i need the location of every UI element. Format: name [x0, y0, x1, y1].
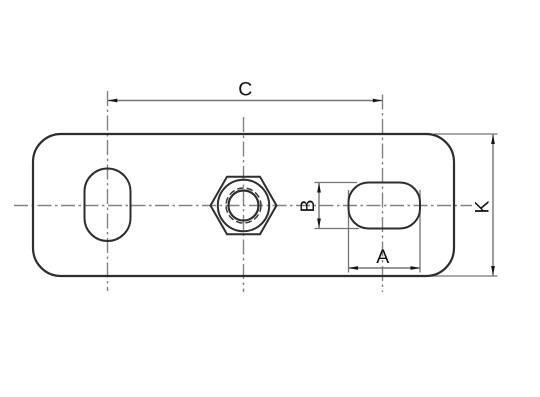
left slot [85, 169, 131, 242]
dimension K extension line top [434, 133, 498, 135]
dimension A line [349, 267, 420, 269]
right slot [349, 183, 421, 229]
right slot vertical centerline [382, 95, 384, 293]
dimension B extension line top [315, 182, 358, 184]
dimension B top arrow [317, 183, 321, 193]
dimension B bottom arrow [317, 219, 321, 229]
dimension A extension line right [419, 190, 421, 273]
dimension A right arrow [411, 266, 421, 270]
dimension C line [108, 100, 383, 102]
svg-text:K: K [472, 200, 494, 213]
dimension K bottom arrow [491, 266, 495, 276]
nut thread dashed circle [226, 188, 261, 223]
nut hole [229, 191, 259, 221]
svg-text:B: B [297, 199, 319, 212]
plate outline [33, 134, 454, 276]
hex nut body [211, 177, 277, 235]
svg-text:A: A [376, 246, 389, 268]
dimension A extension line left [348, 190, 350, 273]
nut vertical centerline [243, 117, 245, 292]
horizontal centerline [14, 205, 472, 207]
dimension C left arrow [108, 99, 118, 103]
left slot vertical centerline [107, 91, 109, 291]
nut chamfer circle [218, 180, 269, 231]
dimension K extension line bottom [428, 275, 498, 277]
dimension B line [318, 183, 320, 228]
dimension K top arrow [491, 135, 495, 145]
dimension C right arrow [373, 99, 383, 103]
dimension K line [492, 135, 494, 276]
svg-text:C: C [238, 78, 252, 100]
dimension A left arrow [349, 266, 359, 270]
dimension B extension line bottom [315, 228, 360, 230]
